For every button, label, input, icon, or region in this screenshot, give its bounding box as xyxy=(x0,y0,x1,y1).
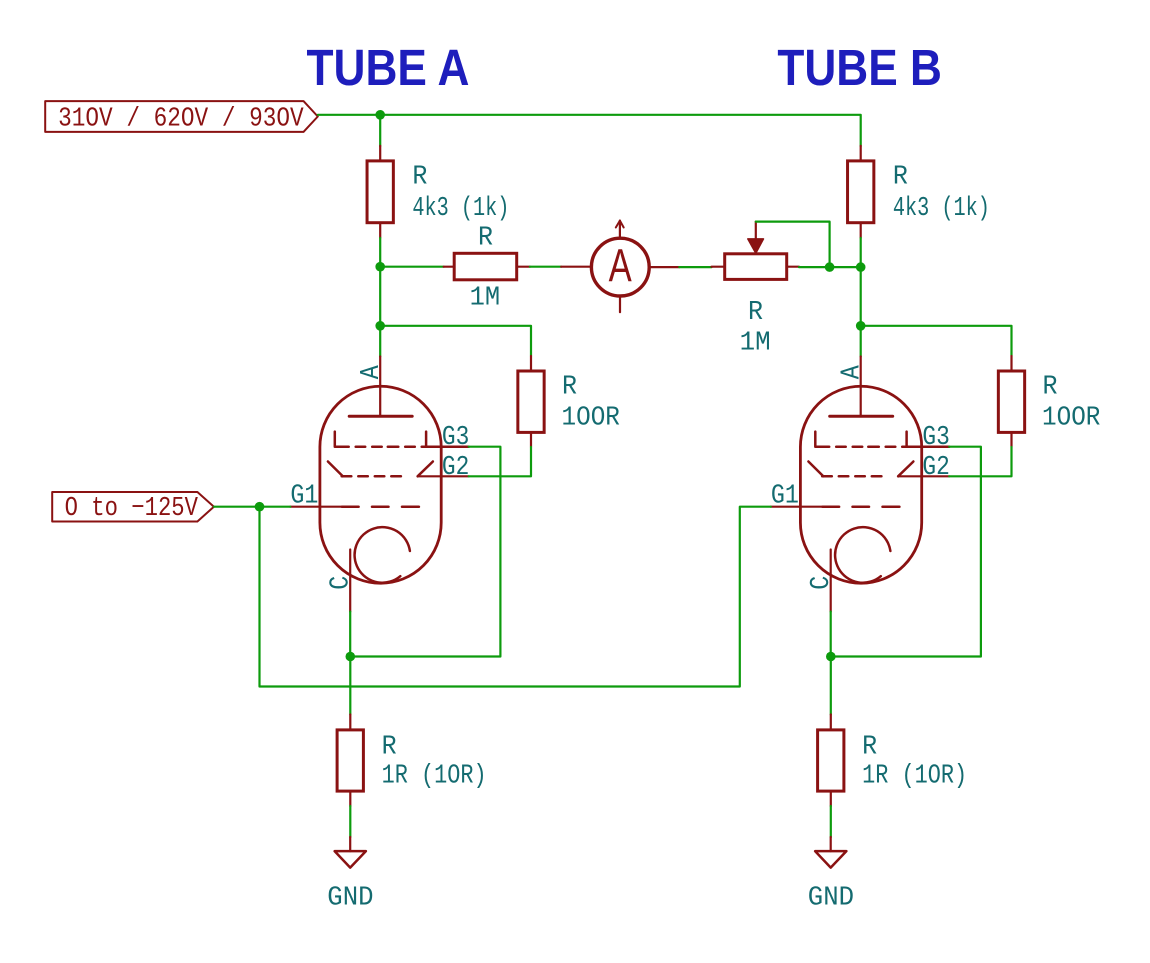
tube VA grid G3 xyxy=(335,432,349,447)
tube VB cathode arc xyxy=(835,527,890,583)
svg-text:1R (1OR): 1R (1OR) xyxy=(382,762,487,792)
wire R 100R A to G2 xyxy=(469,447,531,476)
resistor R 1M right pin xyxy=(517,266,530,268)
tube VB anode plate xyxy=(830,415,893,418)
tube VA cathode pin xyxy=(349,550,351,612)
wire anode junction to R 100R B xyxy=(861,326,1012,356)
svg-text:TUBE B: TUBE B xyxy=(777,39,942,96)
wire cathode junction A down to R 1R xyxy=(349,657,351,715)
wire cathode junction B down to R 1R xyxy=(830,657,832,715)
ammeter top stub with arrow xyxy=(619,221,621,239)
node anode bus junction A upper xyxy=(375,262,385,272)
svg-text:R: R xyxy=(893,163,908,193)
resistor R 1R B top pin xyxy=(830,715,832,730)
svg-text:G2: G2 xyxy=(442,453,469,483)
svg-text:GND: GND xyxy=(808,884,854,914)
tube VB grid G3 xyxy=(815,432,829,447)
svg-text:TUBE A: TUBE A xyxy=(307,39,470,96)
wire G1 cross-connect to tube B xyxy=(260,507,771,687)
wire R 100R B to G2 xyxy=(949,447,1011,476)
resistor R 4k3 (1k) tube A bottom pin xyxy=(379,223,381,238)
ground symbol B pin xyxy=(830,837,832,851)
resistor R 1R A top pin xyxy=(349,715,351,730)
svg-text:O to −125V: O to −125V xyxy=(65,494,199,524)
tube VB envelope xyxy=(800,386,921,583)
svg-text:1OOR: 1OOR xyxy=(562,404,620,434)
ammeter bottom stub xyxy=(619,296,621,312)
svg-text:31OV / 62OV / 93OV: 31OV / 62OV / 93OV xyxy=(58,104,304,134)
svg-text:G1: G1 xyxy=(771,482,799,512)
wire G3 B to cathode node xyxy=(831,447,981,657)
svg-text:A: A xyxy=(357,365,387,380)
svg-text:R: R xyxy=(412,163,427,193)
node HT junction tube A xyxy=(375,110,385,120)
svg-text:C: C xyxy=(807,576,837,590)
ground symbol A triangle xyxy=(335,851,366,868)
wire R 1M to ammeter xyxy=(530,266,561,268)
svg-text:R: R xyxy=(862,733,877,763)
svg-text:G3: G3 xyxy=(922,423,949,453)
svg-text:4k3 (1k): 4k3 (1k) xyxy=(893,194,990,224)
wire 0 to -125V label to G1 A xyxy=(214,506,290,508)
tube VA anode pin xyxy=(379,357,381,417)
node cathode junction A xyxy=(346,652,356,662)
ground symbol A pin xyxy=(349,837,351,851)
svg-text:GND: GND xyxy=(327,884,373,914)
ammeter right pin xyxy=(651,266,680,268)
svg-text:A: A xyxy=(838,365,868,380)
wire ammeter to potentiometer xyxy=(679,266,711,268)
wire wiper to anode bus B xyxy=(756,222,830,268)
ammeter M1 body circle xyxy=(591,238,649,296)
potentiometer wiper arrow xyxy=(748,239,764,253)
resistor R 1R B bottom pin xyxy=(830,791,832,806)
wire R4k3A to anode node xyxy=(379,238,381,357)
wire cathode pin B to junction xyxy=(830,612,832,657)
svg-text:1M: 1M xyxy=(740,328,771,358)
tube VA grid G1 dashes xyxy=(342,505,359,508)
potentiometer right pin xyxy=(787,266,799,268)
svg-text:G1: G1 xyxy=(290,482,318,512)
wire cathode pin A to junction xyxy=(349,612,351,657)
resistor R 4k3 (1k) tube B bottom pin xyxy=(860,223,862,238)
node cathode junction B xyxy=(826,652,836,662)
svg-text:R: R xyxy=(748,298,763,328)
resistor R 4k3 (1k) tube B top pin xyxy=(860,146,862,161)
global label 310V / 620V / 930V xyxy=(45,101,318,132)
tube VB anode pin xyxy=(860,357,862,417)
node wiper junction xyxy=(825,262,835,272)
resistor R 4k3 (1k) tube A top pin xyxy=(379,146,381,161)
resistor R 1R A bottom pin xyxy=(349,791,351,806)
tube VA grid G1 pin xyxy=(290,506,342,508)
tube VB cathode pin xyxy=(830,550,832,612)
svg-text:R: R xyxy=(382,733,397,763)
wire pot right pin to tube B anode bus xyxy=(799,266,861,268)
wire R 1R B to GND xyxy=(830,806,832,837)
node anode junction B lower xyxy=(856,321,866,331)
potentiometer wiper pin xyxy=(755,222,757,239)
tube VA cathode arc xyxy=(355,527,410,583)
tube VB grid G2 xyxy=(808,462,823,477)
global label 0 to -125V xyxy=(52,492,214,522)
ground symbol B triangle xyxy=(815,851,846,868)
tube VA anode plate xyxy=(349,415,412,418)
resistor R 100R A body xyxy=(518,371,544,432)
svg-text:1OOR: 1OOR xyxy=(1042,404,1100,434)
tube VB grid G1 pin xyxy=(771,506,823,508)
node G1 junction xyxy=(255,502,265,512)
svg-text:R: R xyxy=(478,224,493,254)
svg-text:C: C xyxy=(327,576,357,590)
wire G3 A to cathode node xyxy=(350,447,500,657)
wire top bus branch down to R 4k3 A xyxy=(379,115,381,146)
wire anode A to R 1M xyxy=(380,266,444,268)
wire R4k3B to anode node xyxy=(860,238,862,357)
svg-text:1M: 1M xyxy=(470,283,501,313)
wire R 1R A to GND xyxy=(349,806,351,837)
wire top bus from 310V label to TUBE B xyxy=(318,115,861,146)
resistor R 1M body xyxy=(454,253,517,279)
potentiometer left pin xyxy=(712,266,725,268)
svg-text:R: R xyxy=(1043,373,1058,403)
tube VA envelope xyxy=(320,386,441,583)
resistor R 100R B body xyxy=(998,371,1024,432)
resistor R 1R (10R) B body xyxy=(818,730,844,791)
resistor R 4k3 (1k) tube B body xyxy=(848,161,874,223)
resistor R 100R B bottom pin xyxy=(1010,432,1012,447)
node anode junction A lower xyxy=(375,321,385,331)
svg-text:4k3 (1k): 4k3 (1k) xyxy=(412,194,509,224)
potentiometer R 1M body xyxy=(725,254,787,280)
resistor R 4k3 (1k) tube A body xyxy=(367,161,393,223)
svg-text:1R (1OR): 1R (1OR) xyxy=(862,762,967,792)
ammeter left pin xyxy=(561,266,590,268)
tube VB grid G1 dashes xyxy=(823,505,840,508)
resistor R 1R (10R) A body xyxy=(337,730,363,791)
wire anode junction to R 100R A xyxy=(380,326,531,356)
svg-text:A: A xyxy=(609,240,632,292)
tube VA grid G2 xyxy=(328,462,343,477)
resistor R 100R A bottom pin xyxy=(530,432,532,447)
node anode bus junction B upper xyxy=(856,262,866,272)
resistor R 100R B top pin xyxy=(1010,356,1012,371)
svg-text:G2: G2 xyxy=(922,453,949,483)
svg-text:R: R xyxy=(562,373,577,403)
resistor R 100R A top pin xyxy=(530,356,532,371)
resistor R 1M left pin xyxy=(444,266,455,268)
svg-text:G3: G3 xyxy=(442,423,469,453)
